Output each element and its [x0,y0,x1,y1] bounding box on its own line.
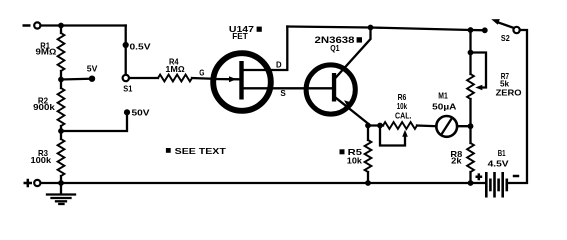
Q1 emitter lead with PNP arrow [336,98,368,126]
wire: 50V tap branch [61,115,127,132]
resistor R8 [467,143,474,172]
junction: meter / R7 / R8 node [468,123,474,129]
junction: R5 on bottom rail [365,180,371,186]
svg-text:5V: 5V [87,65,98,74]
R7 wiper loop with arrow [471,53,487,88]
Q1 base lead [307,87,332,89]
junction: R1/R2 tap (5V) [58,77,64,83]
battery B1 4.5V: plates [486,172,507,198]
junction: Q1 collector on supply rail [368,25,374,31]
resistor R6 (CAL rheostat) [383,122,417,129]
node: 5V switch contact (filled dot) [89,76,95,82]
svg-text:9MΩ: 9MΩ [36,48,57,57]
wire: emitter node to R6 [368,124,383,126]
svg-text:FET: FET [232,32,248,41]
Q1 collector lead to supply rail [336,28,371,78]
U1 source lead / wire to Q1 base [243,87,307,89]
svg-text:S2: S2 [501,34,510,43]
label: battery − [513,175,519,178]
note: see-text square [166,148,171,153]
transistor Q1: 2N3638 PNP, envelope circle [306,65,355,114]
resistor R4 [158,75,192,82]
svg-text:M1: M1 [438,92,448,101]
wire: M1 to R7/R8 junction [457,125,470,127]
wire: junction down to R1 [60,26,62,34]
svg-text:D: D [276,61,282,70]
resistor R2 [58,88,65,126]
svg-text:S: S [280,89,286,98]
svg-text:50µA: 50µA [432,102,456,111]
svg-text:10k: 10k [397,102,408,111]
svg-text:S1: S1 [123,85,133,94]
svg-text:ZERO: ZERO [496,89,523,98]
wire: S1 pole to R4 [129,77,158,79]
U1 gate lead with arrow [213,78,239,81]
switch S2 pole (open circle) [513,27,519,33]
wire: R7 to meter junction [469,99,471,126]
transistor U1: U147 FET, envelope circle [213,53,271,111]
node: 50V switch contact (filled dot) [124,109,130,115]
resistor R7 (ZERO rheostat) [467,74,474,99]
svg-text:5k: 5k [500,79,510,88]
svg-text:1MΩ: 1MΩ [165,65,184,74]
junction: R8 / battery + on bottom rail [468,180,474,186]
wire: R3 to bottom rail [60,176,62,183]
junction: R7 wiper tie point [468,50,474,56]
wire: meter junction down to R8 [469,126,471,143]
switch S2 blade with arrow tip [497,22,517,29]
wire: positive supply rail (top right) [287,27,484,31]
U1 gate bar [239,61,243,100]
svg-text:10k: 10k [347,157,363,166]
wire: R1 to R2 [60,71,62,88]
meter M1 (50µA) circle [436,116,457,137]
svg-text:SEE TEXT: SEE TEXT [175,147,226,156]
junction: R2/R3 tap (50V) [58,128,64,134]
wire: rail down to R7 [469,30,471,74]
wire: 5V tap branch [61,78,89,81]
junction: Q1 emitter node [365,123,371,129]
svg-text:B1: B1 [498,149,506,158]
R6 wiper loop with arrow [380,126,405,146]
svg-text:50V: 50V [132,108,151,117]
svg-text:CAL.: CAL. [395,111,412,120]
label: battery + [476,173,483,180]
wire: bottom rail (ground rail) [41,182,487,184]
Q1 base bar [332,73,336,102]
wire: R4 to FET gate [192,77,215,80]
label R5 see-text square [340,149,345,154]
junction: R3 / ground on bottom rail [58,180,64,186]
terminal: minus input (open circle) [34,22,40,28]
wire: R6 to meter M1 [417,124,437,127]
wire: switch S1 riser from input rail [125,26,127,75]
svg-text:R6: R6 [398,93,407,102]
resistor R3 [58,139,65,176]
junction: R6 left end / wiper tie [377,123,383,129]
terminal: plus input (open circle) [34,180,40,186]
svg-text:Q1: Q1 [330,44,340,53]
wire: S2 to right edge down to battery minus [509,30,527,183]
junction: top of attenuator chain [58,23,64,29]
svg-text:100k: 100k [31,156,52,165]
svg-text:4.5V: 4.5V [488,159,510,168]
wire: R2 to R3 [60,126,62,139]
label: minus sign at input [23,24,31,27]
junction: R7 top on supply rail [468,27,474,33]
svg-text:2k: 2k [451,157,462,166]
wire: R8 to bottom rail [469,172,471,183]
U1 drain lead [243,27,287,71]
svg-text:900k: 900k [33,103,55,112]
switch S1 pole (open circle) [123,75,129,81]
switch S2 left contact (filled dot, rail end) [482,27,488,33]
wire: emitter node down to R5 [367,126,369,141]
wire: R5 to bottom rail [367,172,369,183]
ground symbol [47,183,75,204]
svg-text:G: G [199,69,204,78]
wire: left input rail (top) [41,24,126,26]
node: 0.5V switch contact (filled dot) [123,42,129,48]
M1 needle [442,119,451,133]
resistor R5 [365,140,372,172]
resistor R1 [58,33,65,71]
svg-text:0.5V: 0.5V [130,43,152,52]
label: plus sign at input [24,179,33,187]
